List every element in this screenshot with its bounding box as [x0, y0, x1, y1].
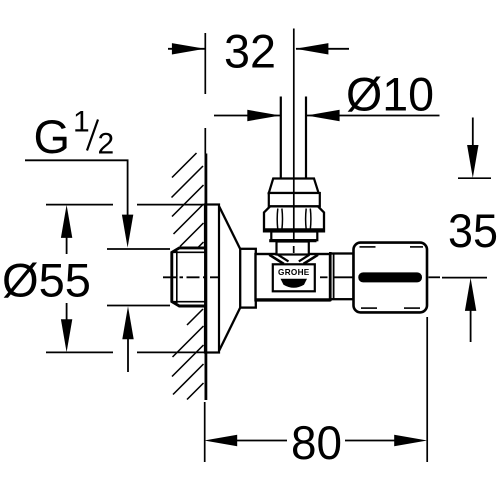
GROHE laurel — [281, 279, 308, 288]
dimension Ø55 — [2, 205, 217, 353]
svg-text:G: G — [34, 110, 71, 163]
dimension Ø10 — [214, 68, 440, 122]
wall line — [204, 154, 207, 401]
svg-text:Ø55: Ø55 — [2, 254, 91, 307]
thread extension lines — [107, 249, 170, 306]
knob — [354, 243, 428, 313]
dimension 32 — [168, 25, 349, 78]
wall hatching — [172, 153, 204, 400]
compression cap — [269, 179, 319, 194]
dimension 32 extension line (wall, above) — [204, 33, 206, 154]
funnel — [269, 255, 318, 264]
label G 1/2 with leader — [25, 106, 134, 373]
svg-text:1: 1 — [73, 106, 90, 139]
dimension 80 — [204, 317, 427, 469]
escutcheon white fill — [205, 205, 256, 351]
escutcheon plate — [205, 205, 219, 353]
escutcheon cone — [219, 207, 240, 250]
dimension 35 — [442, 118, 498, 343]
neck — [277, 242, 309, 255]
vertical centerline — [293, 29, 295, 242]
escutcheon collar — [240, 249, 256, 308]
supply pipe Ø10 — [280, 97, 282, 180]
svg-text:35: 35 — [448, 204, 498, 257]
GROHE box — [273, 264, 315, 291]
knob slot — [358, 272, 422, 282]
valve body — [256, 254, 331, 300]
thread nipple G1/2 — [172, 248, 206, 306]
horizontal centerline — [163, 276, 219, 278]
svg-text:80: 80 — [291, 416, 342, 469]
stem — [330, 254, 353, 300]
svg-text:2: 2 — [98, 128, 115, 161]
svg-text:GROHE: GROHE — [278, 268, 310, 277]
nut lower band — [271, 232, 317, 241]
svg-text:Ø10: Ø10 — [346, 68, 434, 121]
svg-text:32: 32 — [224, 25, 276, 78]
compression hex nut — [264, 206, 324, 231]
compression band — [269, 193, 320, 206]
